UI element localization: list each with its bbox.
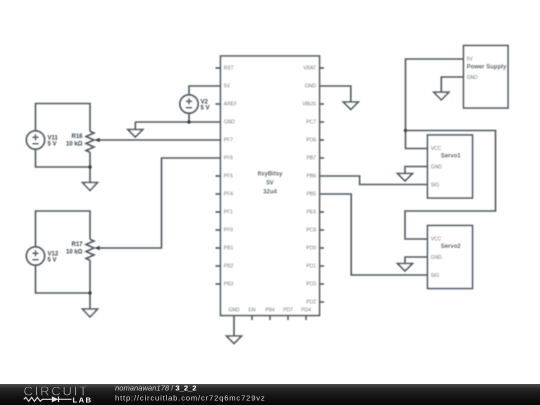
svg-text:ItsyBitsy: ItsyBitsy [257, 171, 283, 177]
svg-text:PB3: PB3 [224, 282, 234, 288]
svg-text:PC7: PC7 [306, 120, 316, 126]
svg-text:PB1: PB1 [224, 246, 234, 252]
svg-text:PB7: PB7 [307, 156, 317, 162]
svg-text:Servo1: Servo1 [441, 154, 462, 160]
svg-text:AREF: AREF [224, 102, 237, 108]
svg-text:GND: GND [431, 164, 443, 170]
svg-text:PF1: PF1 [224, 210, 233, 216]
svg-text:PF4: PF4 [224, 192, 233, 198]
svg-text:PF5: PF5 [224, 174, 233, 180]
svg-text:nomanawan178 / 3_2_2: nomanawan178 / 3_2_2 [115, 383, 197, 392]
svg-text:V2: V2 [201, 99, 209, 105]
svg-text:Power Supply: Power Supply [467, 65, 507, 71]
svg-text:PD3: PD3 [306, 282, 316, 288]
svg-text:PE6: PE6 [307, 210, 317, 216]
svg-text:GND: GND [228, 308, 240, 314]
svg-text:PB6: PB6 [307, 174, 317, 180]
svg-text:V12: V12 [48, 251, 59, 257]
svg-text:R17: R17 [71, 242, 83, 248]
svg-text:10 kΩ: 10 kΩ [66, 141, 83, 147]
svg-text:R16: R16 [71, 134, 83, 140]
svg-text:PD4: PD4 [301, 308, 311, 314]
svg-text:VCC: VCC [431, 237, 442, 243]
svg-text:PF7: PF7 [224, 138, 233, 144]
svg-text:LAB: LAB [73, 395, 93, 404]
svg-text:VBUS: VBUS [302, 102, 316, 108]
svg-text:5 V: 5 V [201, 105, 210, 111]
svg-text:GND: GND [224, 120, 236, 126]
svg-text:PD0: PD0 [306, 246, 316, 252]
svg-text:GND: GND [467, 75, 479, 81]
svg-text:PF6: PF6 [224, 156, 233, 162]
svg-text:5 V: 5 V [48, 141, 57, 147]
svg-text:5V: 5V [224, 84, 231, 90]
svg-text:VCC: VCC [431, 146, 442, 152]
svg-text:PB4: PB4 [265, 308, 275, 314]
svg-text:5 V: 5 V [48, 257, 57, 263]
svg-text:Servo2: Servo2 [441, 244, 462, 250]
svg-text:32u4: 32u4 [263, 189, 277, 195]
svg-text:GND: GND [305, 84, 317, 90]
svg-text:GND: GND [431, 255, 443, 261]
svg-text:SIG: SIG [431, 182, 440, 188]
svg-text:PB5: PB5 [307, 192, 317, 198]
svg-text:5V: 5V [266, 180, 273, 186]
svg-text:EN: EN [249, 308, 256, 314]
svg-text:V11: V11 [48, 135, 59, 141]
svg-text:PD2: PD2 [306, 300, 316, 306]
svg-text:PB2: PB2 [224, 264, 234, 270]
svg-text:PD7: PD7 [283, 308, 293, 314]
svg-text:PC6: PC6 [306, 228, 316, 234]
svg-text:SIG: SIG [431, 273, 440, 279]
svg-text:5V: 5V [467, 57, 474, 63]
svg-text:PD6: PD6 [306, 138, 316, 144]
svg-text:RST: RST [224, 66, 234, 72]
svg-text:10 kΩ: 10 kΩ [66, 249, 83, 255]
svg-text:VBAT: VBAT [303, 66, 316, 72]
svg-text:http://circuitlab.com/cr72q6mc: http://circuitlab.com/cr72q6mc729vz [115, 394, 266, 403]
svg-text:PF0: PF0 [224, 228, 233, 234]
svg-text:PD1: PD1 [306, 264, 316, 270]
